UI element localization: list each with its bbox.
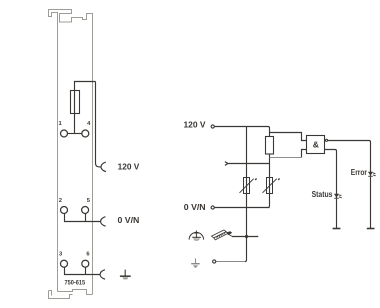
- ground bar error: [367, 228, 375, 230]
- svg-text:120 V: 120 V: [118, 161, 140, 171]
- clamp contact earth: [100, 270, 105, 280]
- clamp contact 120V: [101, 162, 106, 172]
- svg-text:Status: Status: [312, 190, 333, 199]
- wire earth bottom run: [216, 261, 245, 263]
- operating tool icon: [212, 230, 232, 240]
- wire error line: [327, 141, 370, 229]
- svg-text:0 V/N: 0 V/N: [184, 202, 206, 212]
- wire earth column: [245, 208, 247, 262]
- gate U1: [307, 136, 325, 154]
- terminal 2: [61, 207, 68, 214]
- wire terminal 2 bus to clamp: [65, 214, 101, 222]
- wire terminal 1 to 4: [68, 133, 82, 135]
- wire branch fuse bottom gray run: [270, 157, 302, 159]
- wire 0V/N line: [214, 207, 269, 209]
- wire 120V top line: [214, 127, 269, 137]
- module outline 750-615 body with DIN-rail latch: [49, 10, 93, 299]
- terminal 1: [61, 130, 68, 137]
- wire fuse through: [74, 91, 76, 114]
- wire fuse feed top: [75, 82, 96, 134]
- terminal 6: [82, 260, 89, 267]
- junction dot: [245, 235, 248, 238]
- power jumper contact marker: [225, 162, 228, 166]
- svg-text:&: &: [313, 140, 319, 150]
- wire terminal 3 bus to clamp: [65, 267, 101, 274]
- varistor RV2: [263, 178, 280, 194]
- ground bar status: [333, 228, 341, 230]
- terminal circle earth: [213, 260, 216, 263]
- earth symbol bottom gray: [191, 259, 200, 268]
- clamp contact 0V/N: [101, 217, 106, 227]
- wire terminal 6 stub: [85, 267, 87, 274]
- wire power jumper line: [228, 163, 270, 165]
- terminal 3: [61, 260, 68, 267]
- wire status line: [325, 150, 337, 229]
- earth symbol left module: [120, 270, 131, 280]
- wire branch fuse top to gate input: [270, 133, 307, 141]
- svg-text:120 V: 120 V: [184, 120, 206, 130]
- fuse F1 schematic: [266, 137, 274, 155]
- inverter bubble: [325, 139, 327, 141]
- svg-text:750-615: 750-615: [65, 281, 86, 287]
- functional earth icon: [189, 231, 204, 241]
- terminal 5: [82, 207, 89, 214]
- LED Error: [368, 172, 376, 177]
- wire fused column: [268, 154, 270, 208]
- wire branch down to varistor RV1: [246, 127, 248, 208]
- wire branch jog to gate input: [302, 150, 307, 158]
- svg-text:0 V/N: 0 V/N: [118, 215, 140, 225]
- wire junction stub: [232, 236, 258, 238]
- wire terminal 5 stub: [85, 214, 87, 222]
- svg-text:2: 2: [59, 198, 62, 204]
- varistor RV1: [240, 178, 257, 194]
- terminal 4: [82, 130, 89, 137]
- LED Status: [334, 194, 342, 199]
- svg-text:Error: Error: [351, 168, 367, 177]
- terminal circle 120V: [211, 125, 214, 128]
- wire 120V drop to clamp: [96, 82, 101, 167]
- fuse F1: [71, 91, 80, 114]
- terminal circle 0V/N: [211, 206, 214, 209]
